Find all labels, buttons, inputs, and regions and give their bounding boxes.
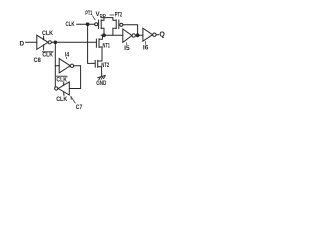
clocked inverter C8 xyxy=(37,35,48,49)
svg-text:CLK: CLK xyxy=(66,21,75,28)
svg-text:NT1: NT1 xyxy=(103,42,111,49)
junction dot CLK branch xyxy=(86,23,89,26)
svg-text:GND: GND xyxy=(96,80,106,87)
bubble C7 output xyxy=(55,87,58,90)
junction dot node rail xyxy=(103,34,106,37)
bubble I6 output xyxy=(153,33,156,36)
pin CLK tick bottom of C7 xyxy=(63,92,65,96)
wire D input xyxy=(26,41,37,43)
pin CLK tick top of C8 xyxy=(43,36,45,40)
wire PT2 gate to keeper node xyxy=(123,25,138,36)
svg-text:D: D xyxy=(20,40,25,47)
transistor PT2 (PMOS, mirrored) xyxy=(113,18,116,21)
wire node X xyxy=(51,41,96,43)
transistor NT1 (NMOS) xyxy=(95,39,97,47)
node X junction dot xyxy=(54,41,57,44)
wire C7 input xyxy=(69,88,80,90)
bubble I5 output xyxy=(132,34,135,37)
wire CLK branch down to NT2 gate xyxy=(88,24,95,63)
junction dot keeper feedback xyxy=(136,34,139,37)
wire I6 output xyxy=(156,34,159,36)
wire I5 output to I6 xyxy=(135,34,143,36)
inverter I6 xyxy=(143,28,153,41)
ground symbol xyxy=(98,75,106,77)
svg-text:I5: I5 xyxy=(124,45,130,52)
wire CLK to PT1 gate xyxy=(77,23,95,25)
bubble I4 output xyxy=(70,64,73,67)
wire feedback vertical from node X down to C7 output xyxy=(54,42,56,87)
svg-text:CLK: CLK xyxy=(42,30,53,37)
power Vdd rail xyxy=(101,17,113,19)
svg-text:I6: I6 xyxy=(143,45,149,52)
svg-text:DD: DD xyxy=(100,13,106,18)
svg-text:I4: I4 xyxy=(65,52,70,59)
pin CLKbar tick bottom of C8 xyxy=(43,45,45,50)
svg-text:CLK: CLK xyxy=(42,51,53,58)
pin CLKbar tick top of C7 xyxy=(63,82,65,85)
svg-text:PT1: PT1 xyxy=(85,10,93,17)
svg-text:PT2: PT2 xyxy=(115,11,123,18)
svg-text:C8: C8 xyxy=(34,57,42,64)
clocked inverter C7 (facing left) xyxy=(58,82,69,95)
transistor PT1 (PMOS) xyxy=(95,23,98,26)
transistor NT2 (NMOS) xyxy=(94,60,96,67)
svg-text:CLK: CLK xyxy=(56,76,67,83)
bubble C8 output xyxy=(48,41,51,44)
wire I4 input stub xyxy=(55,65,59,67)
wire internal node rail to I5 xyxy=(101,34,123,36)
svg-text:Q: Q xyxy=(159,31,165,38)
inverter I5 xyxy=(123,29,132,42)
wire feedback right vertical down to C7 input xyxy=(80,66,82,89)
wire I4 output xyxy=(74,65,81,67)
svg-text:CLK: CLK xyxy=(56,96,67,103)
inverter I4 xyxy=(59,59,70,73)
svg-text:C7: C7 xyxy=(76,104,83,111)
svg-text:NT2: NT2 xyxy=(101,62,109,69)
